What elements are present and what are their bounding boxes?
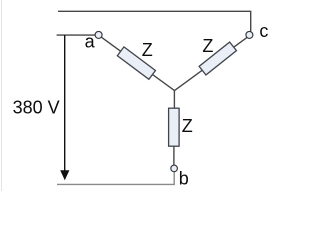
svg-text:Z: Z (182, 116, 193, 136)
svg-text:c: c (259, 21, 268, 41)
380 V arrow line (64, 35, 66, 171)
wire: b terminal to bottom line (57, 172, 174, 185)
terminal c (246, 31, 253, 38)
impedance Z (phase c) (199, 42, 236, 75)
svg-text:a: a (85, 32, 96, 52)
terminal a (95, 31, 102, 38)
wire: top line to c (58, 11, 251, 31)
faint left crop border (1, 0, 3, 191)
svg-text:Z: Z (202, 36, 213, 56)
wire: resistor to b terminal (173, 146, 175, 165)
380 V arrowhead (60, 170, 69, 180)
svg-text:Z: Z (142, 40, 153, 60)
svg-text:380 V: 380 V (13, 98, 60, 118)
terminal b (171, 165, 178, 172)
wire: neutral node down (173, 91, 175, 109)
wire: feed to a (57, 34, 96, 36)
wire: neutral node to c (175, 37, 248, 90)
svg-text:b: b (179, 169, 189, 189)
impedance Z (phase b) (169, 108, 180, 146)
wire: a to neutral node (101, 37, 174, 91)
impedance Z (phase a) (117, 47, 155, 79)
